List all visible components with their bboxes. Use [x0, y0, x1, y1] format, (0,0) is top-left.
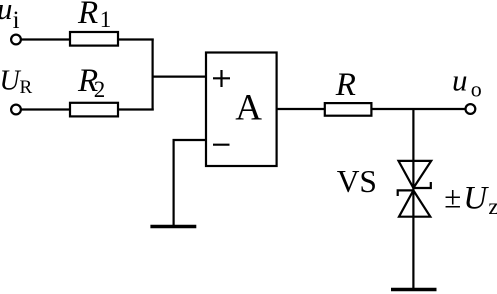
wire junction to op-amp plus input: [152, 75, 207, 77]
wire R to output terminal: [371, 108, 465, 110]
ground under zener: [391, 288, 437, 292]
resistor R1: [70, 32, 118, 46]
svg-text:o: o: [471, 76, 482, 101]
wire output node down through zener to ground: [412, 109, 414, 288]
terminal u_o: [466, 104, 476, 114]
svg-text:R: R: [20, 77, 33, 98]
wire R1 to junction: [118, 38, 154, 40]
ground under op-amp: [150, 225, 196, 229]
wire U_R terminal to R2: [22, 108, 71, 110]
zener diode VS cathode bar right: [413, 182, 430, 188]
zener diode VS cathode bar left: [398, 190, 414, 196]
svg-text:R: R: [335, 67, 356, 103]
zener diode VS bottom triangle: [399, 190, 430, 216]
resistor R: [325, 103, 372, 116]
svg-text:u: u: [0, 0, 13, 26]
terminal U_R: [11, 105, 21, 115]
zener diode VS top triangle: [399, 161, 432, 188]
op-amp A box: [206, 53, 277, 167]
wire R2 to junction: [118, 108, 154, 110]
svg-text:±: ±: [444, 180, 461, 215]
wire u_i terminal to R1: [22, 38, 71, 40]
svg-text:VS: VS: [337, 164, 377, 199]
wire op-amp output to R: [277, 108, 325, 110]
svg-text:R: R: [77, 0, 98, 31]
svg-text:2: 2: [94, 77, 106, 102]
svg-text:i: i: [13, 7, 20, 34]
wire op-amp minus input to ground: [174, 140, 206, 225]
svg-text:U: U: [0, 66, 22, 97]
terminal u_i: [11, 35, 21, 45]
svg-text:A: A: [235, 88, 262, 129]
svg-text:U: U: [463, 181, 489, 217]
op-amp plus input symbol: [213, 70, 230, 87]
svg-text:u: u: [452, 63, 468, 98]
svg-text:z: z: [488, 194, 497, 219]
op-amp minus input symbol: [213, 144, 230, 146]
wire junction vertical: [152, 39, 154, 111]
svg-text:1: 1: [100, 7, 112, 32]
resistor R2: [70, 103, 118, 117]
